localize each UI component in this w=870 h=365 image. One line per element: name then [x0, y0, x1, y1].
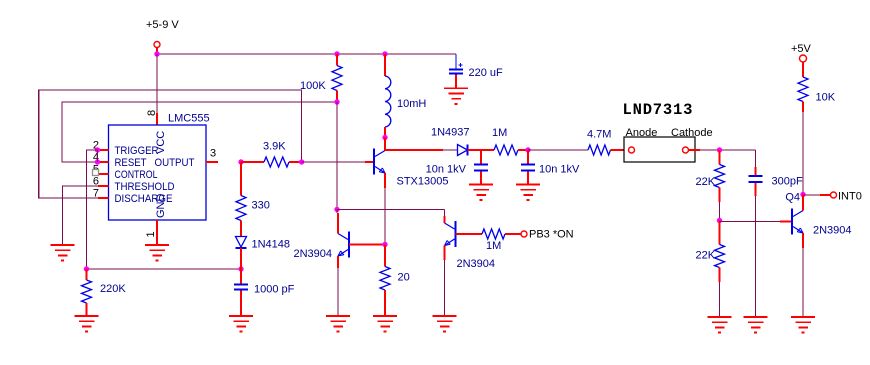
capacitor C 10n 1kV left	[426, 150, 488, 185]
wire emitter STX	[384, 173, 386, 245]
junction output node	[238, 159, 243, 164]
pin label VCC	[155, 131, 167, 154]
capacitor 220 uF	[449, 55, 503, 88]
diode D 1N4148	[236, 237, 291, 251]
wire base STX	[302, 161, 374, 163]
pin 1 wire	[156, 220, 158, 245]
svg-text:2N3904: 2N3904	[294, 248, 333, 260]
pin label THRESHOLD	[115, 181, 175, 193]
wire diode to 1M	[468, 149, 495, 151]
trigger tube LND7313 box	[624, 137, 695, 162]
svg-text:220K: 220K	[100, 283, 126, 295]
capacitor 300pF	[749, 150, 803, 317]
wire diode to timing	[240, 248, 242, 269]
wire pin2-pin4 tie	[97, 150, 99, 162]
wire rail to 220uF	[455, 54, 457, 56]
svg-text:10n 1kV: 10n 1kV	[426, 164, 467, 176]
wire 100K to pin4	[62, 102, 337, 162]
wire to 4.7M	[528, 149, 588, 151]
ground 220uF	[444, 88, 468, 104]
pin label Anode	[626, 127, 658, 139]
svg-text:2N3904: 2N3904	[457, 258, 496, 270]
transistor Q1 STX13005	[374, 149, 448, 188]
svg-text:2N3904: 2N3904	[813, 225, 852, 237]
terminal PB3	[521, 229, 574, 241]
capacitor 1000 pF	[234, 269, 295, 316]
ground cap2	[516, 185, 540, 201]
svg-text:20: 20	[398, 272, 410, 284]
pin label Cathode	[671, 127, 713, 139]
svg-text:INT0: INT0	[838, 191, 862, 203]
resistor 100K	[300, 54, 342, 102]
wire collector to diode	[385, 149, 458, 151]
pin 5 stub no-connect	[93, 164, 109, 176]
cathode pin circle	[683, 147, 701, 153]
svg-text:Cathode: Cathode	[671, 127, 713, 139]
ground 1000pF	[229, 316, 253, 332]
svg-text:22K: 22K	[696, 250, 716, 262]
svg-text:1: 1	[145, 231, 157, 237]
junction INT0 node	[800, 192, 805, 197]
wire collector STX	[384, 138, 386, 151]
svg-text:1000 pF: 1000 pF	[254, 284, 295, 296]
pin 6 stub	[93, 176, 109, 188]
pin 7 stub	[93, 188, 109, 200]
wire to pin 8	[156, 54, 158, 125]
ground Q3	[433, 316, 457, 332]
diode D 1N4937	[431, 127, 470, 156]
svg-text:1N4937: 1N4937	[431, 127, 470, 139]
wire Q3 collector	[444, 209, 446, 223]
junction rail/100K	[334, 51, 339, 56]
svg-text:Q4: Q4	[785, 192, 800, 204]
pin label GND	[155, 194, 167, 219]
ground 22K	[708, 317, 732, 333]
transistor Q3 2N3904	[445, 221, 496, 270]
wire 100K column	[336, 102, 338, 209]
ground 20	[373, 316, 397, 332]
junction rail/pin8	[154, 51, 159, 56]
svg-text:10mH: 10mH	[397, 98, 426, 110]
svg-text:VCC: VCC	[155, 131, 167, 154]
wire pin6 to ground	[63, 186, 99, 245]
resistor 10K	[798, 77, 836, 195]
terminal INT0	[803, 191, 862, 203]
anode pin circle	[629, 147, 635, 153]
junction after 1M	[525, 147, 530, 152]
resistor 220K	[82, 269, 127, 316]
pin number 8	[146, 110, 158, 116]
svg-text:GND: GND	[155, 194, 167, 219]
wire output to pin7 loop	[39, 90, 302, 198]
pin 4 stub	[93, 152, 109, 164]
svg-text:RESET: RESET	[115, 157, 147, 169]
wire Q2 base	[349, 244, 385, 246]
svg-text:OUTPUT: OUTPUT	[155, 157, 195, 169]
label LND7313	[623, 101, 694, 119]
pin label TRIGGER	[115, 145, 159, 157]
resistor 20	[380, 245, 410, 317]
resistor 330	[236, 162, 270, 236]
pin label DISCHARGE	[115, 193, 173, 205]
op-amp U1 LMC555 box	[109, 125, 207, 220]
pin label CONTROL	[115, 169, 158, 181]
wire Q2 collector	[337, 209, 338, 233]
svg-text:330: 330	[252, 200, 270, 212]
junction 220K	[84, 266, 89, 271]
svg-text:Anode: Anode	[626, 127, 658, 139]
svg-text:1M: 1M	[486, 240, 501, 252]
svg-text:100K: 100K	[300, 80, 326, 92]
svg-text:THRESHOLD: THRESHOLD	[115, 181, 175, 193]
svg-text:PB3 *ON: PB3 *ON	[529, 229, 574, 241]
wire divider to Q4 base	[720, 221, 793, 223]
junction inductor/collector	[382, 135, 387, 140]
pin number 1	[145, 231, 157, 237]
svg-text:LND7313: LND7313	[623, 101, 694, 119]
ground 220K	[75, 316, 99, 332]
svg-text:LMC555: LMC555	[168, 113, 210, 125]
junction node X	[299, 159, 304, 164]
svg-text:+5V: +5V	[791, 43, 812, 55]
junction emitter/base	[382, 242, 387, 247]
wire Q4 emitter	[802, 233, 804, 317]
wire pin2 to timing node	[87, 150, 98, 269]
svg-text:CONTROL: CONTROL	[115, 169, 158, 181]
pin 2 stub	[93, 140, 109, 152]
svg-text:+5-9 V: +5-9 V	[146, 19, 179, 31]
wire Q3 emitter	[444, 246, 446, 317]
inductor L 10mH	[385, 54, 426, 138]
wire Q4 collector	[802, 195, 804, 211]
resistor R 1M top	[492, 127, 528, 155]
wire timing node	[87, 268, 242, 270]
svg-text:220 uF: 220 uF	[469, 67, 504, 79]
resistor 22K upper	[696, 150, 725, 221]
junction rail/inductor	[382, 51, 387, 56]
junction collector node	[334, 207, 339, 212]
svg-text:TRIGGER: TRIGGER	[115, 145, 159, 157]
junction 100K bottom	[334, 99, 339, 104]
svg-text:10K: 10K	[816, 92, 836, 104]
wire VCC rail	[157, 53, 456, 55]
ground 300pF	[744, 317, 768, 333]
power terminal +5V	[791, 43, 812, 77]
transistor Q2 2N3904	[294, 232, 350, 261]
junction pin2	[95, 147, 100, 152]
power terminal +5-9 V	[146, 19, 179, 54]
svg-text:8: 8	[146, 110, 158, 116]
junction divider	[717, 218, 722, 223]
junction cathode node	[717, 147, 722, 152]
ground threshold	[51, 245, 75, 261]
pin 3 stub	[206, 148, 218, 163]
resistor 22K lower	[696, 221, 725, 318]
label LMC555	[168, 113, 210, 125]
label Q4	[785, 192, 800, 204]
wire collector node	[337, 208, 445, 210]
ground pin1	[145, 245, 169, 261]
junction timing/cap	[238, 266, 243, 271]
ground Q2	[326, 316, 350, 332]
svg-text:10n 1kV: 10n 1kV	[539, 164, 580, 176]
svg-text:4.7M: 4.7M	[587, 129, 611, 141]
pin label RESET	[115, 157, 147, 169]
wire Q2 emitter	[337, 256, 339, 316]
svg-text:1N4148: 1N4148	[252, 239, 291, 251]
svg-text:3: 3	[210, 148, 216, 160]
svg-text:3.9K: 3.9K	[263, 141, 286, 153]
resistor R 1M base	[456, 229, 522, 252]
ground cap1	[469, 185, 493, 201]
transistor Q4 2N3904	[792, 209, 852, 237]
svg-text:STX13005: STX13005	[397, 176, 449, 188]
capacitor C 10n 1kV right	[521, 150, 580, 185]
svg-text:300pF: 300pF	[772, 176, 803, 188]
pin label OUTPUT	[155, 157, 195, 169]
svg-text:1M: 1M	[492, 127, 507, 139]
junction pin4	[95, 159, 100, 164]
resistor R 3.9K	[241, 141, 302, 168]
svg-text:22K: 22K	[696, 176, 716, 188]
wire cathode node	[700, 149, 756, 151]
resistor R 4.7M	[587, 129, 629, 156]
ground Q4	[791, 317, 815, 333]
